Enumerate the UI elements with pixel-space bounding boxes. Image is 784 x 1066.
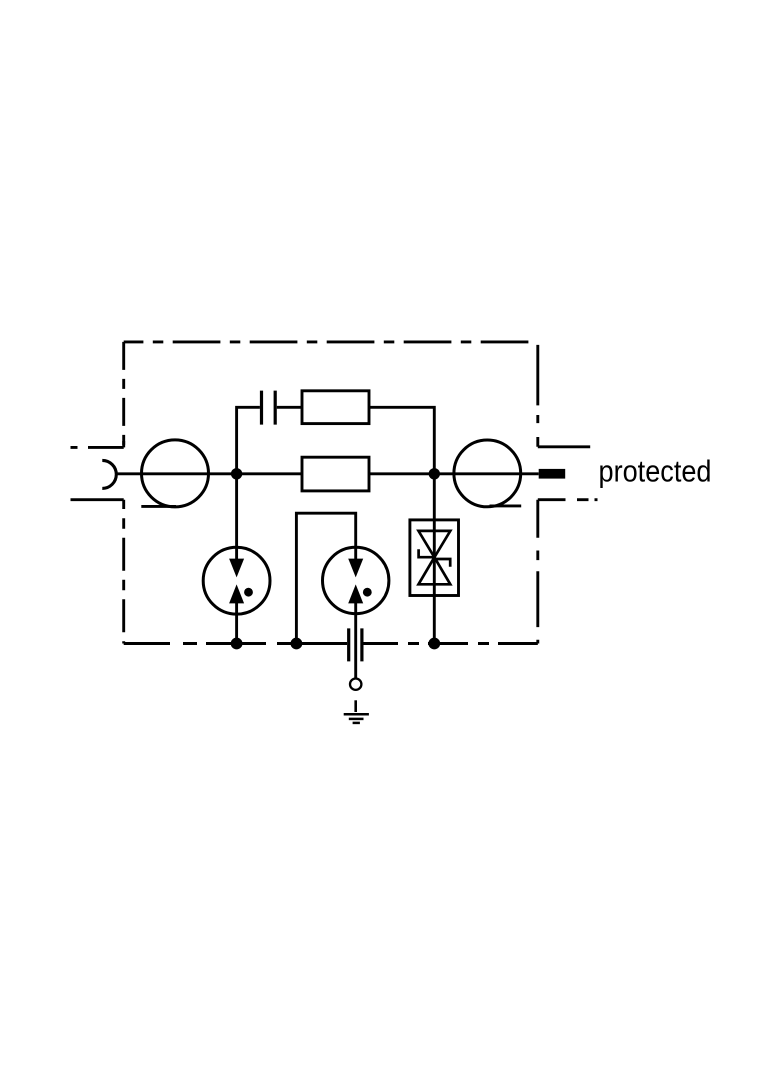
capacitor C1 plates bbox=[262, 391, 276, 425]
surge arrester F1 (left GDT) bbox=[203, 547, 270, 614]
resistor R1 (top box) bbox=[302, 391, 369, 424]
suppressor diode box V1 bbox=[410, 520, 459, 596]
node C (bus junction under F1) bbox=[231, 638, 243, 650]
wire: capacitor to resistor R1 bbox=[277, 406, 302, 409]
enclosure right border upper segment bbox=[536, 345, 539, 447]
F1 lower arrow (up) bbox=[229, 584, 244, 603]
bus capacitor C2 plates bbox=[349, 628, 362, 661]
node E (bus junction under V1) bbox=[428, 638, 440, 650]
earth terminal circle bbox=[350, 679, 361, 690]
svg-text:protected: protected bbox=[599, 454, 712, 489]
V1 internal vertical line bbox=[433, 520, 436, 596]
wire: middle branch from bus up and over to arrester F2 bbox=[296, 513, 355, 643]
F2 lower arrow (up) bbox=[348, 584, 363, 603]
surge arrester F2 (middle GDT) bbox=[323, 547, 389, 613]
node A (left junction on main line) bbox=[231, 468, 242, 479]
protected terminal (black rectangle) bbox=[539, 469, 566, 479]
right circle bottom tail bbox=[490, 504, 522, 507]
enclosure opening stub left-bottom bbox=[71, 498, 124, 501]
wire: suppressor down to bus bbox=[433, 596, 436, 644]
ground symbol bbox=[354, 700, 357, 712]
F1 upper arrow (down) bbox=[229, 559, 244, 578]
enclosure left border upper segment bbox=[122, 342, 125, 448]
wire: F2 down through bus capacitor gap to earth terminal bbox=[354, 602, 357, 678]
enclosure top border (dash-dot) bbox=[124, 340, 530, 343]
enclosure right border lower segment bbox=[536, 500, 539, 644]
F2 indicator dot bbox=[363, 588, 372, 597]
isolating transformer (right circle) bbox=[454, 440, 521, 507]
node B (right junction on main line) bbox=[429, 468, 440, 479]
enclosure opening stub right-bottom bbox=[538, 498, 598, 501]
F2 upper arrow (down) bbox=[348, 559, 363, 578]
wire: main line right section bbox=[369, 472, 539, 475]
wire: main line left section bbox=[116, 472, 302, 475]
left circle bottom tail bbox=[141, 505, 176, 508]
wire: node A down to arrester F1 bbox=[235, 474, 238, 560]
wire: R1 to node B bbox=[369, 407, 434, 474]
isolating transformer (left circle) bbox=[142, 440, 209, 507]
V1 lower diode triangle bbox=[419, 557, 451, 584]
wire: F1 down to bus bbox=[235, 602, 238, 644]
node D (bus junction middle branch) bbox=[291, 638, 303, 650]
enclosure opening stub left-top bbox=[71, 446, 124, 449]
resistor R2 (series box on main line) bbox=[302, 457, 369, 491]
enclosure bottom border (dash-dot, broken at bus capacitor) bbox=[124, 642, 347, 645]
enclosure left border lower segment bbox=[122, 500, 125, 644]
wire: node B down to suppressor bbox=[433, 474, 436, 520]
input terminal arc bbox=[102, 460, 116, 488]
V1 zener crossbar bbox=[419, 549, 451, 567]
F1 indicator dot bbox=[244, 588, 253, 597]
wire: up from node A to capacitor branch bbox=[237, 407, 260, 474]
enclosure opening stub right-top bbox=[538, 445, 590, 448]
V1 upper diode triangle bbox=[419, 531, 451, 557]
